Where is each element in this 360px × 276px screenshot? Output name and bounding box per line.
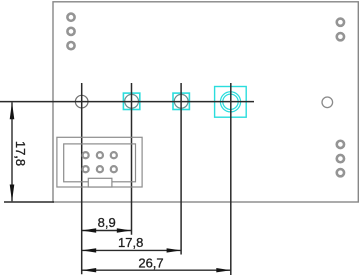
dimension 8,9: [82, 215, 132, 233]
svg-text:17,8: 17,8: [13, 141, 28, 166]
dimension 17,8 vertical left: [10, 102, 29, 201]
highlight square S1: [123, 93, 139, 109]
extension line vertical at hole H1: [81, 83, 83, 274]
highlight square S2: [173, 93, 189, 109]
centerline horizontal: [0, 101, 254, 103]
pad group top-right (2 pads): [337, 19, 344, 41]
dimension 17,8 horizontal: [82, 235, 181, 253]
dimension 26,7: [82, 256, 231, 273]
extension line vertical at S1: [131, 83, 133, 235]
connector J1 pads (2x3): [83, 152, 117, 172]
svg-text:8,9: 8,9: [98, 215, 116, 230]
highlight square S3 (large, double circle): [215, 87, 247, 118]
extension line board bottom: [4, 201, 54, 203]
pad group right-middle (3 pads): [337, 141, 344, 177]
connector J1 outer outline: [57, 137, 142, 187]
connector J1 polarization tab: [88, 178, 112, 187]
extension line vertical at S2: [180, 83, 182, 255]
board outline: [53, 2, 358, 202]
connector J1 body: [64, 144, 136, 182]
pad group left (3 pads): [67, 14, 74, 50]
hole H1 with crosshair circle: [75, 95, 88, 108]
mounting hole right: [322, 97, 333, 108]
svg-text:17,8: 17,8: [118, 235, 143, 250]
extension line vertical at S3: [230, 83, 232, 275]
svg-text:26,7: 26,7: [138, 256, 163, 271]
